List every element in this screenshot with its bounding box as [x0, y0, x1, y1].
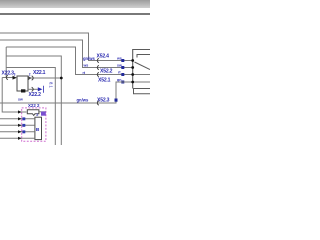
- wire top bus y=14: [0, 13, 150, 15]
- wire into pin 4: [0, 131, 35, 133]
- violet pin square at box right: [41, 112, 46, 116]
- connector on wire A: [97, 58, 99, 62]
- reference arrow X22.2: [38, 87, 43, 91]
- wire into pin 5: [0, 137, 35, 139]
- inner rectangle device: [35, 117, 42, 139]
- svg-text:X52.1: X52.1: [98, 78, 111, 84]
- svg-text:sw: sw: [18, 97, 23, 101]
- pin arrow into box B1 left: [13, 76, 17, 80]
- wire A y=33: [0, 33, 133, 61]
- pin arrow into coil wire: [18, 110, 22, 113]
- box B1: [17, 76, 28, 91]
- svg-text:2: 2: [36, 113, 38, 117]
- connector on X22.1 wire: [32, 76, 34, 80]
- svg-text:gn/ws: gn/ws: [77, 98, 90, 103]
- svg-text:X22.3: X22.3: [2, 71, 15, 77]
- right lower contact box: [134, 89, 151, 94]
- wire X52.3 y=103: [0, 82, 150, 103]
- connector pin X22.3: [6, 75, 8, 79]
- pin arrow out of box B1 right: [28, 76, 32, 80]
- left bus x=2: [2, 78, 26, 113]
- pin mark 4: [22, 130, 25, 133]
- device pin on wire D y=82: [121, 81, 124, 84]
- svg-text:X22.2: X22.2: [29, 92, 42, 98]
- node dot bus wire C: [131, 73, 134, 76]
- node dot bus wire D: [131, 81, 134, 84]
- right device stub contact: [137, 55, 150, 58]
- wire C left drop to node: [5, 47, 7, 78]
- pin mark 3: [22, 124, 25, 127]
- magenta component boundary: [22, 108, 46, 141]
- wire L2 y=66: [6, 68, 55, 146]
- box B1 bottom pin mark: [21, 89, 25, 92]
- right device switch arm: [135, 62, 151, 70]
- svg-text:sw: sw: [117, 64, 122, 68]
- svg-text:ws: ws: [83, 64, 89, 68]
- coil symbol: [27, 110, 39, 116]
- svg-text:8.1: 8.1: [49, 82, 54, 88]
- pin arrow 5: [18, 137, 22, 140]
- svg-text:gn: gn: [117, 78, 121, 82]
- svg-text:ws: ws: [116, 57, 122, 61]
- wire X22.1 y=78: [28, 77, 61, 79]
- toolbar gray bar: [0, 0, 150, 8]
- wire X22.2 y=89.3: [28, 88, 38, 90]
- svg-text:X52.2: X52.2: [100, 69, 113, 75]
- svg-text:gn/ws: gn/ws: [83, 56, 96, 61]
- pin arrow 4: [18, 130, 22, 133]
- right device bus: [133, 50, 150, 89]
- pin arrow 2: [18, 117, 22, 120]
- connector pin up on x=116: [115, 99, 118, 102]
- connector on wire B: [97, 65, 99, 69]
- device pin on wire B: [121, 66, 124, 69]
- wire X22.3 y=77.5: [2, 77, 13, 79]
- svg-text:2: 2: [29, 73, 31, 77]
- wire coil to box edge: [40, 111, 46, 113]
- wire into pin 2: [0, 118, 35, 120]
- connector on X52.3 wire: [97, 101, 99, 105]
- node junction dot L1/X22.1: [60, 77, 63, 80]
- device pin on wire A: [121, 59, 124, 62]
- connector on X22.2 wire: [32, 87, 34, 91]
- device pin on wire C: [121, 73, 124, 76]
- svg-text:X52.3: X52.3: [97, 97, 110, 103]
- pin arrow 3: [18, 124, 22, 127]
- wire B y=40: [0, 40, 133, 68]
- svg-text:3: 3: [14, 73, 16, 77]
- wire into pin 3: [0, 124, 35, 126]
- wire C y=47: [6, 47, 150, 75]
- node dot bus wire B: [131, 66, 134, 69]
- connector on wire C: [97, 72, 99, 76]
- svg-text:X22.1: X22.1: [33, 70, 46, 76]
- pin mark 2: [22, 117, 25, 120]
- svg-text:B: B: [36, 127, 40, 133]
- wire L1 y=56: [6, 56, 61, 145]
- svg-text:X22 2: X22 2: [28, 103, 40, 108]
- node dot bus wire A: [131, 59, 134, 62]
